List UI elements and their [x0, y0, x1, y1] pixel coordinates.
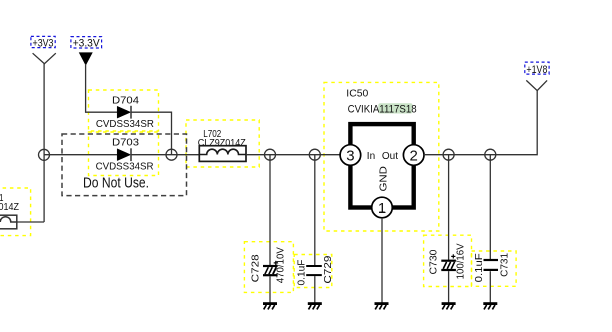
ground (IC50 pin1) — [375, 302, 389, 309]
diode D704 — [96, 94, 154, 130]
ground (C728) — [263, 302, 277, 309]
highlight box L701 (yellow) — [0, 188, 31, 236]
svg-text:C730: C730 — [427, 249, 439, 274]
power symbol +1V8 — [525, 62, 549, 91]
wire D704 cathode to junction — [131, 112, 171, 155]
svg-text:100/16V: 100/16V — [455, 243, 467, 279]
svg-text:D704: D704 — [112, 94, 139, 106]
svg-text:0.1uF: 0.1uF — [296, 260, 308, 286]
svg-text:3: 3 — [346, 147, 354, 164]
node junction D704/D703 outputs — [166, 149, 177, 160]
svg-text:In: In — [367, 151, 375, 162]
power symbol +3V3 — [31, 36, 56, 63]
pin 2 — [403, 145, 424, 166]
svg-text:+3.3V: +3.3V — [73, 38, 101, 50]
svg-text:C729: C729 — [322, 255, 334, 283]
svg-text:0.1uF: 0.1uF — [473, 253, 485, 282]
wire down to C731 — [489, 155, 491, 260]
wire main rail junction to D703 — [44, 154, 117, 156]
highlight box C728 (yellow) — [244, 242, 293, 293]
svg-text:470/10V: 470/10V — [274, 247, 286, 283]
svg-text:CLZ9Z014Z: CLZ9Z014Z — [198, 137, 246, 149]
power symbol +3.3V — [71, 37, 102, 65]
highlight box C730 (yellow) — [424, 235, 472, 286]
highlight box D704 (yellow) — [89, 90, 159, 131]
svg-text:CLZ9Z014Z: CLZ9Z014Z — [0, 201, 19, 213]
svg-text:CVIKIA1117S18: CVIKIA1117S18 — [348, 103, 417, 115]
pin 1 — [372, 197, 393, 218]
svg-text:D703: D703 — [112, 137, 139, 149]
do-not-use dashed box — [62, 134, 187, 196]
capacitor C731 — [473, 253, 510, 283]
highlight box L702 (yellow) — [186, 120, 259, 167]
op-amp/regulator IC50 — [340, 87, 424, 218]
capacitor C729 — [296, 255, 334, 285]
svg-text:1: 1 — [378, 200, 386, 217]
wire down to C729 — [314, 155, 316, 266]
diode D703 — [96, 137, 154, 173]
highlight box C731 (yellow) — [472, 251, 517, 286]
svg-text:C728: C728 — [250, 254, 262, 282]
ground (C730) — [442, 302, 456, 309]
wire pin1 to ground — [381, 218, 383, 303]
svg-text:IC50: IC50 — [346, 87, 368, 99]
wire C728 to ground — [269, 276, 271, 302]
highlight box D703 (yellow) — [89, 132, 159, 176]
wire pin2 to +1V8 corner — [424, 91, 537, 155]
node junction C731 — [485, 149, 496, 160]
svg-text:C731: C731 — [499, 253, 511, 277]
svg-text:GND: GND — [378, 166, 390, 192]
svg-text:2: 2 — [410, 147, 418, 164]
svg-text:+3V3: +3V3 — [33, 37, 54, 49]
ground (C731) — [483, 302, 497, 309]
svg-text:+1V8: +1V8 — [526, 64, 547, 76]
svg-text:Do Not Use.: Do Not Use. — [83, 175, 149, 192]
capacitor C730 (electrolytic) — [427, 243, 466, 279]
wire down to C730 — [448, 155, 450, 260]
node junction +3V3 / main rail — [39, 149, 50, 160]
wire to L701 — [17, 221, 44, 223]
wire D703 cathode to junction — [131, 154, 199, 156]
wire C730 to ground — [448, 271, 450, 303]
svg-text:Out: Out — [382, 151, 398, 162]
capacitor C728 (electrolytic) — [250, 247, 287, 283]
wire C729 to ground — [314, 276, 316, 303]
wire +3.3V down and right to D704 — [86, 64, 118, 112]
node junction C729 — [309, 149, 320, 160]
wire +3V3 vertical to junction and down — [43, 64, 45, 222]
svg-text:CVDSS34SR: CVDSS34SR — [96, 161, 154, 173]
wire down to C728 — [269, 155, 271, 266]
pin 3 — [340, 145, 361, 166]
inductor L702 — [198, 128, 246, 161]
svg-text:CVDSS34SR: CVDSS34SR — [96, 118, 154, 130]
wire L702 to IC pin 3 — [246, 154, 340, 156]
ground (C729) — [308, 302, 322, 309]
highlight box IC50 (yellow) — [324, 82, 439, 231]
inductor L701 (partial, clipped at left edge) — [0, 192, 19, 229]
node junction C730 — [443, 149, 454, 160]
node junction C728 — [265, 149, 276, 160]
wire C731 to ground — [489, 271, 491, 302]
highlight box C729 (yellow) — [294, 255, 332, 288]
